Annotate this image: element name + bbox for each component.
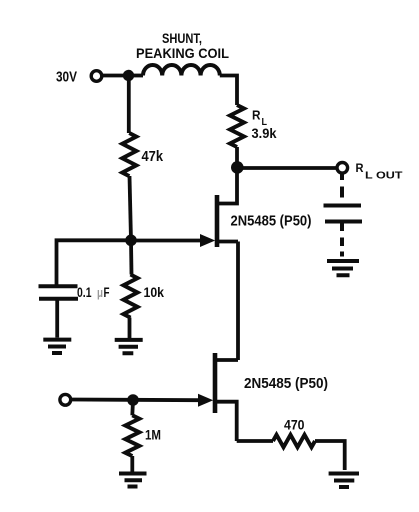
terminal 30V input (91, 71, 102, 82)
JFET Q2 source lead (216, 402, 237, 441)
svg-text:L OUT: L OUT (365, 170, 403, 182)
wire 1M to ground (130, 456, 134, 472)
svg-text:F: F (104, 285, 110, 300)
wire coil to RL resistor (220, 76, 237, 106)
dashed wire load capacitor to ground (340, 222, 344, 257)
wire input terminal to Q2 gate (71, 398, 199, 403)
node input junction (127, 394, 139, 406)
node gate bias junction (125, 235, 137, 247)
svg-text:0.1: 0.1 (77, 285, 92, 300)
ground bypass capacitor (43, 340, 71, 353)
svg-text:1M: 1M (145, 428, 161, 443)
wire gate node down to 10k (129, 240, 133, 274)
svg-text:10k: 10k (144, 284, 165, 300)
svg-text:3.9k: 3.9k (252, 125, 277, 141)
resistor 47k (122, 133, 136, 176)
svg-text:470: 470 (284, 417, 305, 433)
JFET Q1 gate arrow (200, 234, 215, 247)
ground load capacitor (327, 261, 359, 275)
wire gate node to bypass capacitor (57, 240, 132, 284)
svg-text:SHUNT,: SHUNT, (162, 30, 202, 46)
ground 1M (119, 474, 147, 487)
ground 470 (329, 474, 359, 488)
capacitor C 0.1uF (39, 284, 78, 288)
wire gate node to Q1 gate (131, 239, 201, 243)
svg-text:2N5485 (P50): 2N5485 (P50) (244, 376, 328, 392)
terminal RL OUT (337, 163, 348, 174)
ground 10k (115, 340, 143, 353)
wire Q2 source to 470 (237, 439, 273, 443)
node output junction (231, 161, 244, 174)
inductor L1 shunt peaking coil (143, 65, 220, 76)
svg-text:30V: 30V (56, 69, 77, 86)
capacitor load (dashed leads) (324, 204, 362, 208)
wire output node to terminal (237, 166, 336, 170)
node V+ junction (123, 70, 134, 81)
wire capacitor to ground (55, 301, 59, 338)
resistor RL 3.9k (230, 105, 244, 147)
wire terminal to V+ node (102, 74, 129, 78)
svg-text:PEAKING COIL: PEAKING COIL (136, 45, 229, 61)
dashed wire terminal to load capacitor (340, 174, 344, 198)
resistor 1M (125, 415, 139, 456)
JFET Q1 source lead (218, 240, 238, 244)
svg-text:R: R (356, 163, 365, 175)
svg-text:μ: μ (97, 285, 103, 300)
JFET Q2 channel (213, 353, 218, 413)
terminal input (60, 394, 71, 405)
svg-text:2N5485 (P50): 2N5485 (P50) (231, 214, 312, 230)
JFET Q1 channel (215, 195, 220, 247)
wire RL to output node (235, 147, 239, 168)
JFET Q1 drain lead (218, 168, 237, 204)
wire Q1 source to Q2 drain (236, 242, 240, 361)
wire 470 to ground (315, 441, 345, 470)
svg-text:47k: 47k (142, 148, 164, 165)
wire V+ node to coil (129, 74, 144, 78)
wire 10k to ground (128, 318, 132, 339)
wire 47k to gate node (130, 176, 132, 241)
JFET Q2 drain lead (216, 358, 238, 362)
resistor 10k (124, 275, 138, 318)
resistor 470 (273, 435, 315, 447)
JFET Q2 gate arrow (198, 394, 213, 407)
wire V+ node down to 47k (127, 76, 131, 134)
svg-text:R: R (252, 108, 261, 123)
wire input node down to 1M (130, 400, 134, 415)
